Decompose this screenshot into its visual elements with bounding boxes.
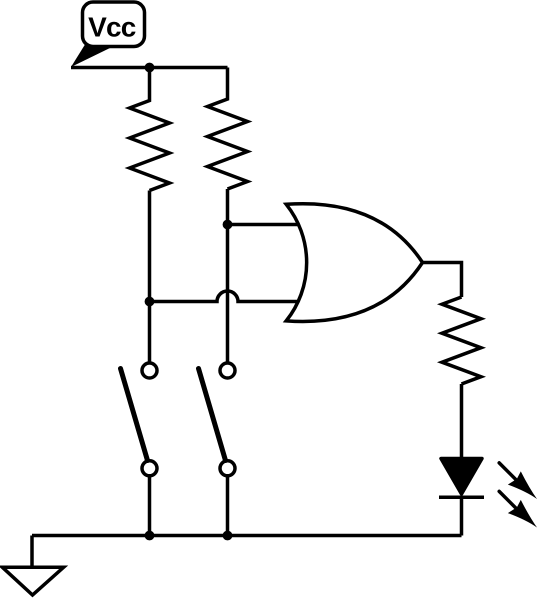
resistor R1 [130, 68, 170, 191]
wire Vcc rail [71, 66, 228, 70]
junction dot J1 [145, 63, 155, 73]
wire R2 to SW2 [226, 189, 230, 363]
or-gate U1 [286, 204, 422, 322]
junction dot J2 [145, 297, 155, 307]
junction dot J5 [223, 531, 233, 541]
junction dot J4 [145, 531, 155, 541]
switch SW1 [121, 363, 158, 476]
wire OR top input [228, 223, 306, 227]
power flag Vcc [71, 2, 145, 67]
switch SW2 [199, 363, 236, 476]
LED D1 [439, 459, 484, 498]
wire OR bottom input with hop [150, 291, 306, 302]
wire OR output to R3 [423, 263, 462, 298]
junction dot J3 [223, 220, 233, 230]
wire LED to rail [460, 497, 464, 535]
ground [2, 536, 63, 596]
wire ground rail [32, 534, 462, 538]
wire SW2 to rail [226, 475, 230, 536]
resistor R2 [208, 68, 248, 190]
LED light arrows [499, 463, 537, 528]
wire R3 to LED [460, 384, 464, 459]
wire SW1 to rail [148, 475, 152, 536]
wire R1 to SW1 [148, 191, 152, 364]
resistor R3 [442, 297, 481, 384]
svg-text:Vcc: Vcc [88, 12, 136, 43]
